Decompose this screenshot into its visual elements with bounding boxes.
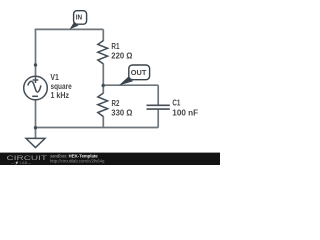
wire C1 bottom lead bbox=[157, 110, 159, 128]
wire top rail V1 to R1 bbox=[35, 28, 104, 30]
svg-text:square: square bbox=[51, 82, 73, 91]
svg-text:R1: R1 bbox=[111, 42, 120, 51]
wire R1 top lead bbox=[102, 29, 104, 41]
V1 minus sign bbox=[32, 95, 38, 97]
node junction at ground bbox=[34, 126, 37, 129]
node dot at V1 positive terminal bbox=[34, 63, 37, 66]
svg-text:—⚡LAB—: —⚡LAB— bbox=[11, 160, 31, 165]
wire ground stub bbox=[35, 128, 37, 139]
svg-text:V1: V1 bbox=[50, 73, 59, 82]
node junction at OUT bbox=[102, 84, 105, 87]
svg-text:330 Ω: 330 Ω bbox=[111, 108, 132, 117]
svg-text:OUT: OUT bbox=[131, 68, 147, 77]
resistor R1 zigzag bbox=[98, 41, 108, 64]
flag IN box bbox=[74, 11, 87, 25]
svg-text:R2: R2 bbox=[112, 99, 120, 108]
svg-text:1 kHz: 1 kHz bbox=[51, 91, 70, 100]
wire left lower: V1 to bottom rail bbox=[35, 100, 37, 128]
wire bottom rail bbox=[36, 127, 159, 129]
wire OUT node to C1 bbox=[103, 84, 158, 86]
voltage source V1 body bbox=[24, 76, 48, 100]
wire R2 bottom lead bbox=[102, 116, 104, 127]
V1 waveform glyph bbox=[28, 81, 41, 92]
wire left: top rail down to V1 bbox=[35, 29, 37, 77]
svg-text:220 Ω: 220 Ω bbox=[111, 52, 132, 61]
wire C1 top lead bbox=[157, 85, 159, 104]
capacitor C1 top plate bbox=[147, 104, 170, 106]
ground symbol triangle bbox=[26, 138, 45, 147]
svg-text:C1: C1 bbox=[172, 99, 180, 108]
svg-text:http://circuitlab.com/c/2fv64q: http://circuitlab.com/c/2fv64q bbox=[50, 158, 105, 163]
wire between R1 and R2 bbox=[102, 64, 104, 94]
watermark bar bbox=[0, 153, 220, 165]
V1 plus sign bbox=[33, 77, 39, 83]
flag OUT tail bbox=[119, 76, 133, 85]
flag OUT box bbox=[129, 65, 150, 80]
svg-text:100 nF: 100 nF bbox=[172, 108, 198, 117]
resistor R2 zigzag bbox=[98, 93, 108, 116]
flag IN tail bbox=[70, 22, 79, 30]
svg-text:IN: IN bbox=[76, 12, 82, 21]
capacitor C1 bottom plate bbox=[147, 108, 170, 110]
